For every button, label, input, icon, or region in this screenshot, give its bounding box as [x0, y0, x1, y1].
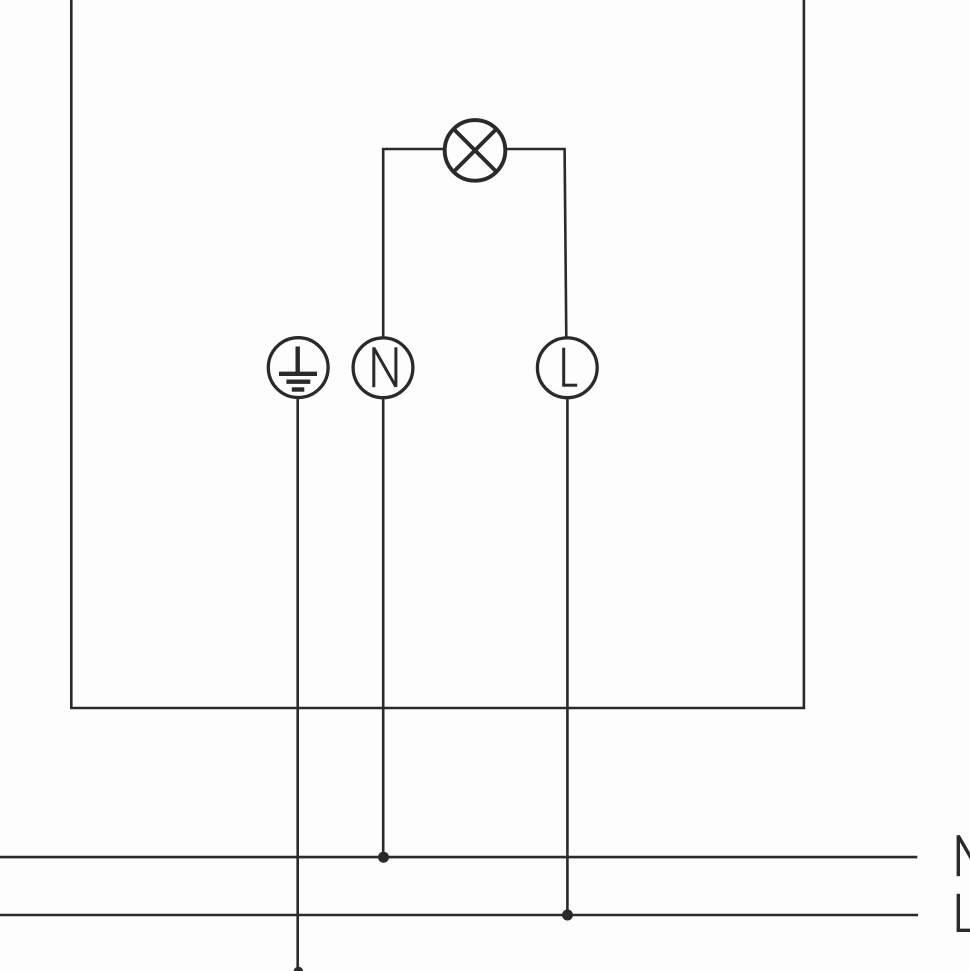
terminal L (circle) — [537, 338, 597, 398]
wire (N bus line) — [0, 856, 917, 859]
wire (L conductor from L terminal down to L bus) — [566, 398, 569, 915]
net label N (right of N bus, clipped by edge) — [958, 835, 970, 876]
label N (letter inside N terminal) — [374, 347, 396, 387]
wire (L bus line) — [0, 914, 918, 917]
lamp E1 (circle with X) — [445, 120, 506, 181]
wire (lamp right lead: horizontal then down to L terminal) — [506, 149, 566, 338]
earth symbol (inside PE terminal) — [279, 347, 317, 390]
wire (N conductor from N terminal down to N bus) — [382, 398, 385, 857]
wire (PE conductor going down off the bottom) — [296, 397, 299, 968]
junction (N conductor to N bus) — [378, 852, 389, 863]
terminal PE (protective-earth terminal circle) — [268, 338, 328, 398]
junction (L conductor to L bus) — [562, 910, 573, 921]
terminal N (circle) — [353, 338, 413, 398]
wire (lamp left lead: horizontal then down to N terminal) — [383, 149, 444, 338]
junction (end dot of PE conductor, clipped at bottom edge) — [294, 967, 303, 971]
net label L (right of L bus, clipped by edge) — [957, 894, 970, 931]
label L (letter inside L terminal) — [562, 348, 577, 386]
enclosure box (sensor housing outline, open at top) — [71, 0, 804, 708]
